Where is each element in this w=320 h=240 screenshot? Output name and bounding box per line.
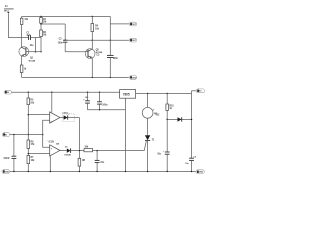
node dot bbox=[40, 23, 42, 25]
wire J1 to C1 bbox=[8, 14, 28, 38]
wire to IC1A inverting input bbox=[28, 114, 49, 116]
wire R1 to node bbox=[40, 23, 42, 30]
resistor R8 bbox=[78, 151, 85, 172]
resistor R4 bbox=[91, 16, 100, 31]
capacitor C7 bbox=[95, 151, 105, 172]
wire to output row 2 bbox=[65, 39, 129, 41]
capacitor C9 bbox=[185, 156, 197, 171]
svg-text:GND: GND bbox=[199, 172, 204, 174]
ground bus bottom bbox=[10, 171, 196, 173]
wire to IC1B inverting input bbox=[28, 153, 49, 155]
supply rail bottom section bbox=[12, 91, 120, 93]
svg-text:IC1B: IC1B bbox=[49, 140, 54, 143]
connector GND1 bbox=[129, 76, 137, 80]
wire to connector row 1 bbox=[110, 23, 129, 25]
resistor R2a collector bbox=[21, 16, 23, 18]
microphone jack J1 bbox=[4, 4, 14, 14]
connector OUT2 bbox=[129, 38, 137, 42]
connector IN2 bbox=[2, 133, 9, 137]
base wire Q2 bbox=[65, 51, 88, 53]
svg-text:100n: 100n bbox=[58, 41, 64, 44]
svg-text:1M: 1M bbox=[43, 20, 46, 23]
svg-text:10n: 10n bbox=[100, 161, 104, 164]
connector IN1 bbox=[4, 90, 11, 94]
right vertical with C3 bbox=[109, 16, 111, 55]
svg-text:100n: 100n bbox=[113, 57, 119, 60]
svg-text:100nF: 100nF bbox=[3, 158, 10, 160]
connector GND3 bbox=[196, 170, 204, 174]
7805 output wire bbox=[136, 93, 192, 95]
capacitor C8 bbox=[157, 151, 169, 172]
supply rail top bbox=[22, 15, 111, 17]
svg-text:7805: 7805 bbox=[123, 93, 130, 97]
collector wire Q1 bbox=[21, 25, 23, 48]
resistor R6 bbox=[27, 140, 35, 148]
resistor R10 bbox=[166, 94, 174, 152]
emitter wire Q1 bbox=[21, 56, 23, 65]
ground link wire bbox=[88, 109, 126, 111]
svg-text:100n: 100n bbox=[102, 104, 108, 107]
wire R3 to ground bus bbox=[21, 73, 23, 78]
emitter wire Q2 bbox=[91, 58, 93, 77]
transistor Q2 bbox=[85, 48, 103, 58]
wire R2 to base wire bbox=[40, 37, 42, 52]
base wire Q1 bbox=[26, 51, 41, 53]
transistor Q1 bbox=[19, 47, 36, 63]
diode D2 bbox=[156, 114, 191, 122]
7805 regulator U1 bbox=[120, 90, 136, 99]
op-amp IC1B bbox=[47, 140, 60, 157]
op-amp IC1A supply wire bbox=[51, 92, 53, 112]
diode D1 bbox=[60, 146, 84, 156]
connector VOUT bbox=[196, 89, 204, 93]
capacitor C2 bbox=[58, 24, 68, 52]
connector OUT1 bbox=[129, 22, 137, 26]
thyristor T1 bbox=[144, 135, 155, 171]
svg-text:1N4148: 1N4148 bbox=[64, 154, 71, 157]
resistor R2 bbox=[40, 30, 47, 37]
wire C1 to base node bbox=[31, 37, 42, 39]
capacitor C6 bbox=[3, 135, 16, 172]
svg-text:1M: 1M bbox=[82, 159, 85, 162]
svg-text:1M: 1M bbox=[43, 33, 46, 36]
wire LED to OR node bbox=[78, 118, 80, 151]
resistor R1 bbox=[40, 16, 47, 23]
wire to top right connector bbox=[192, 90, 197, 92]
ground bus top section bbox=[22, 76, 129, 78]
OR node dot bbox=[79, 150, 81, 152]
resistor R9 bbox=[84, 146, 144, 152]
wire IN2 bbox=[10, 134, 43, 136]
svg-text:BC548: BC548 bbox=[29, 59, 36, 62]
svg-text:GND: GND bbox=[132, 77, 137, 79]
resistor R7 bbox=[27, 155, 35, 163]
right vertical wire bbox=[191, 91, 193, 158]
motor M1 bbox=[142, 94, 158, 136]
capacitor C3 bbox=[96, 53, 118, 60]
capacitor C1 bbox=[26, 31, 31, 40]
wire riser bbox=[35, 38, 37, 52]
coupling node line bbox=[41, 23, 65, 25]
wire op2 to ground bbox=[49, 156, 51, 172]
wire to IC1A non-inverting input bbox=[43, 120, 50, 147]
resistor R3 bbox=[20, 65, 27, 73]
LED1 bbox=[60, 113, 80, 122]
node dot bbox=[35, 51, 37, 53]
capacitor C5 bbox=[97, 92, 108, 110]
capacitor C4 bbox=[83, 92, 90, 110]
op-amp IC1A bbox=[50, 112, 60, 124]
collector wire Q2 bbox=[91, 32, 93, 49]
resistor R5 bbox=[27, 92, 35, 104]
svg-text:GND: GND bbox=[5, 171, 10, 173]
connector GND2 bbox=[2, 170, 10, 174]
ground pin wire 7805 bbox=[125, 98, 127, 171]
